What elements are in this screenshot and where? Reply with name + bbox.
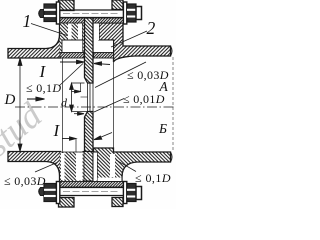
label 1 leader [31,24,67,36]
svg-text:≤ 0,01D: ≤ 0,01D [123,92,165,106]
bottom bolt [39,182,142,204]
svg-text:D: D [4,92,16,108]
flange block above shank right [112,0,123,10]
D dimension [18,58,22,152]
gap slot left flange top [68,23,72,41]
hatched band above bottom bolt shank [58,182,126,188]
svg-text:Б: Б [158,121,167,136]
lower-left pipe wall + flange [8,152,61,182]
left flange strips (top joint) [60,23,84,58]
right pipe end thin line [172,57,174,151]
svg-text:2: 2 [147,18,156,38]
bolt head [127,4,136,22]
left flange strips (bottom joint) [60,152,84,181]
flange inner face edges seen through bore [62,58,64,152]
view arrow I [27,97,45,101]
svg-text:≤ 0,1D: ≤ 0,1D [135,171,171,185]
label 2 leader [111,31,147,47]
<=0,03D leader [95,62,146,88]
bottom-left leader [35,163,57,173]
leader lines [31,24,147,173]
bolt tip [39,10,44,18]
<=0,01D leader [94,99,124,113]
slot right flange [94,23,100,41]
top bolt [39,2,142,24]
<=0,1D left leader [59,64,83,87]
upper-left pipe wall with fillet [8,23,61,58]
shank [60,9,123,11]
d dimension [70,83,90,112]
svg-text:≤ 0,03D: ≤ 0,03D [4,174,46,188]
horizontal centerline (pipe axis) [15,106,176,108]
lower-right pipe wall + flange [94,148,171,181]
gasket bar right (top joint) [94,53,114,59]
plate thickness arrows (top) [60,60,110,65]
recess chamber right [95,41,114,52]
bottom-right leader [116,160,136,172]
hatched band below top bolt shank [58,18,126,23]
gasket bar left (top joint) [60,53,84,59]
svg-text:d: d [61,96,68,110]
flange block above shank left [59,0,75,11]
small arrows near orifice [72,83,88,115]
bottom joint arrows [62,133,112,153]
upper-right pipe wall + flange [99,23,172,62]
washer left [56,2,59,24]
flange block below shank left [59,198,75,208]
svg-text:1: 1 [23,11,32,31]
white band above bolt band (right) [98,178,122,182]
plate rim sliver (top joint) [83,23,85,53]
nut [44,4,56,22]
svg-text:≤ 0,1D: ≤ 0,1D [26,81,61,95]
washer right [123,2,126,24]
recess chamber left [62,23,84,53]
svg-text:≤ 0,03D: ≤ 0,03D [127,68,169,82]
plate in bottom joint [83,152,93,182]
watermark [0,94,50,164]
flange block below shank right [112,198,123,207]
